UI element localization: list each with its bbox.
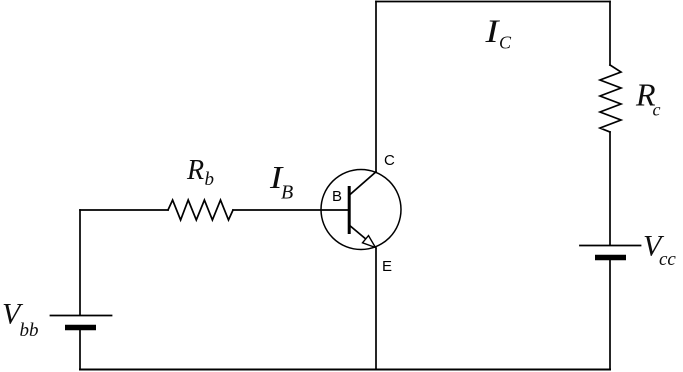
battery Vcc plus plate — [580, 245, 641, 247]
transistor Q1 emitter lead — [350, 226, 367, 240]
svg-text:C: C — [384, 152, 395, 169]
svg-text:cc: cc — [659, 249, 676, 270]
wire emitter vertical (transistor to bottom) — [375, 248, 377, 370]
resistor Rc — [600, 65, 621, 132]
transistor Q1 base bar — [348, 188, 351, 233]
wire base left segment — [80, 209, 168, 211]
battery Vcc minus plate — [595, 255, 626, 261]
transistor Q1 emitter arrowhead — [363, 236, 376, 248]
battery Vbb plus plate — [51, 315, 112, 317]
wire collector vertical (top to transistor) — [375, 2, 377, 172]
resistor Rb — [168, 200, 233, 220]
battery Vbb minus plate — [65, 325, 96, 331]
wire right vertical mid (Rc to Vcc) — [609, 132, 611, 245]
svg-text:B: B — [332, 188, 342, 205]
wire base right segment (Rb to base bar) — [233, 209, 348, 211]
svg-text:c: c — [653, 100, 661, 120]
svg-text:R: R — [186, 155, 204, 186]
transistor Q1 collector lead — [350, 172, 376, 195]
wire left vertical lower (Vbb to bottom) — [79, 330, 81, 370]
wire right vertical lower (Vcc to bottom) — [609, 260, 611, 370]
svg-text:B: B — [281, 182, 293, 204]
wire top horizontal (collector to Rc) — [376, 1, 610, 3]
svg-text:bb: bb — [20, 320, 39, 341]
svg-text:E: E — [382, 258, 392, 275]
wire bottom horizontal — [80, 369, 610, 371]
wire right vertical upper (top to Rc) — [609, 2, 611, 66]
wire left vertical upper (corner to Vbb) — [79, 210, 81, 315]
svg-text:C: C — [499, 33, 512, 53]
transistor Q1 circle — [321, 170, 401, 250]
svg-text:b: b — [205, 169, 215, 190]
